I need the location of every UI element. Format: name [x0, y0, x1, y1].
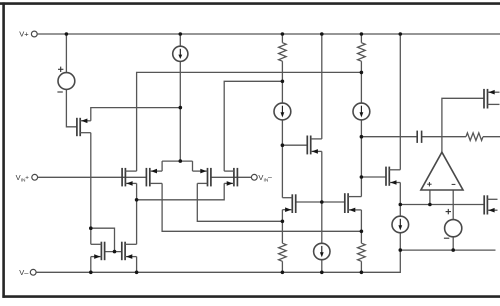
terminal V-: [19, 268, 36, 277]
resistor R2: [358, 43, 366, 62]
wire M4 source down and node A link: [137, 183, 225, 199]
wire I2 bottom to M7: [281, 119, 283, 198]
wire I1 top: [179, 34, 181, 46]
terminal VIN-: [251, 173, 272, 184]
node junction 9: [179, 106, 183, 110]
wire M10 drain up to V+: [399, 34, 401, 170]
node junction 13: [360, 175, 364, 179]
resistor R4: [358, 243, 366, 261]
node junction 14: [135, 198, 139, 202]
wire M10 source down to I5: [399, 183, 401, 217]
transistor M13: [77, 118, 91, 136]
transistor M3: [193, 168, 211, 187]
wire M7 M9 gate link: [296, 201, 345, 203]
current source I3: [353, 103, 370, 120]
op-amp A1: [421, 152, 463, 190]
resistor R1: [279, 43, 287, 62]
wire VIN- gate line: [211, 176, 252, 178]
wire I1 bottom to tail node: [179, 60, 181, 161]
voltage source V1: [57, 67, 74, 92]
resistor R5: [466, 133, 483, 141]
node junction 8: [281, 80, 285, 84]
wire M6 source to V-: [136, 257, 138, 273]
wire A1 output up to M11 gate: [442, 98, 484, 152]
wire M5 source to V-: [90, 257, 92, 273]
svg-text:V–: V–: [19, 268, 29, 277]
terminal V+: [19, 30, 37, 39]
wire M2 source up: [161, 161, 163, 171]
wire VIN+ gate line: [38, 176, 147, 178]
current source I5: [392, 216, 409, 233]
transistor M7: [282, 194, 295, 213]
transistor M9: [345, 193, 362, 213]
wire M10 gate link: [361, 176, 386, 178]
voltage source V2: [444, 209, 462, 238]
node junction 17: [428, 203, 432, 207]
wire M1 drain up and top link: [137, 72, 362, 171]
node junction 11: [281, 143, 285, 147]
resistor R3: [279, 243, 287, 261]
svg-text:+: +: [25, 175, 29, 182]
wire VS1 top: [65, 34, 67, 73]
node junction 5: [360, 32, 364, 36]
wire M8 source down to I4: [321, 151, 323, 243]
node junction 1: [65, 32, 69, 36]
wire A1 minus input to V2: [452, 190, 454, 220]
wire R3 bottom to V-: [281, 261, 283, 272]
transistor M4: [224, 168, 237, 187]
transistor M10: [386, 167, 400, 186]
wire mirror gate link: [91, 228, 115, 251]
wire M9 source down to R4: [360, 210, 362, 243]
wire I5 bottom: [399, 233, 401, 251]
wire M6 drain up to node A: [136, 183, 138, 244]
wire R2 top lead: [360, 34, 362, 43]
wire mirror gates: [105, 251, 122, 253]
wire M4 drain up to R1 bottom: [224, 81, 282, 171]
node junction 25: [135, 271, 139, 275]
wire tail node: [162, 160, 192, 162]
wire C1 to R5: [422, 136, 466, 138]
svg-text:–: –: [268, 175, 272, 182]
node junction 15: [320, 200, 324, 204]
node junction 18: [281, 220, 285, 224]
node junction 10: [360, 135, 364, 139]
wire R2 bottom to I3: [360, 61, 362, 103]
wire bottom right net: [400, 249, 495, 251]
node junction 19: [89, 226, 93, 230]
wire V- rail: [36, 250, 400, 272]
node junction 27: [320, 271, 324, 275]
node junction 2: [179, 32, 183, 36]
wire M7 source down to R3: [281, 210, 283, 244]
svg-text:V+: V+: [19, 30, 29, 39]
wire V+ rail: [37, 33, 500, 35]
terminal VIN+: [16, 173, 38, 184]
node junction 20: [360, 230, 364, 234]
wire VS1 bottom to M13 gate: [66, 89, 77, 126]
wire M13 drain to bias node: [91, 108, 181, 121]
wire I3 bottom to M9 drain: [360, 119, 362, 197]
transistor M1: [122, 168, 137, 187]
node junction 6: [399, 32, 403, 36]
wire M3 source up: [192, 161, 194, 171]
wire R5 to edge: [483, 136, 500, 138]
node junction 16: [399, 203, 403, 207]
node junction 12: [179, 159, 183, 163]
current source I4: [314, 243, 330, 259]
node junction 3: [281, 32, 285, 36]
wire M2 drain down and across: [162, 183, 361, 231]
transistor M2: [146, 168, 162, 187]
wire V+ to M8 drain: [321, 34, 323, 139]
wire R1 top lead: [281, 34, 283, 43]
wire R4 bottom to V-: [360, 261, 362, 272]
node junction 28: [360, 271, 364, 275]
wire output node to M12 gate: [400, 204, 484, 206]
transistor M11: [484, 89, 500, 109]
wire R1 bottom to I2: [281, 61, 283, 103]
transistor M5: [91, 242, 105, 261]
wire compensation node to C1: [361, 136, 417, 138]
wire I4 bottom to V-: [321, 259, 323, 272]
transistor M8: [307, 136, 322, 155]
current source I1: [173, 46, 188, 61]
current source I2: [274, 103, 291, 120]
wire M3 drain down and across: [197, 183, 282, 221]
node junction 22: [451, 248, 455, 252]
transistor M12: [484, 195, 497, 214]
node junction 24: [89, 271, 93, 275]
wire V2 bottom: [452, 237, 454, 250]
node junction 26: [281, 271, 285, 275]
wire A1 plus input lead: [429, 190, 431, 205]
node junction 7: [360, 71, 364, 75]
node junction 4: [320, 32, 324, 36]
node junction 21: [399, 248, 403, 252]
capacitor C1: [417, 131, 421, 143]
node junction 23: [113, 250, 117, 254]
wire M13 source down: [90, 133, 92, 245]
transistor M6: [122, 242, 137, 261]
wire M8 gate link: [282, 144, 307, 146]
